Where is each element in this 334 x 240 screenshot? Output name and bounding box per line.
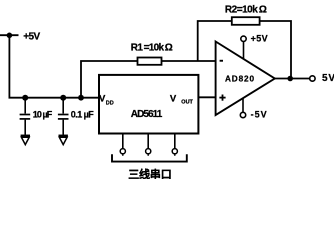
wire VOUT to non-inverting input <box>198 96 215 98</box>
supply -5V stub and terminal <box>240 98 245 118</box>
svg-text:+5V: +5V <box>251 34 268 44</box>
ground (under C2) <box>59 136 68 145</box>
capacitor C2 0.1uF <box>58 98 69 135</box>
label minus input <box>220 60 223 62</box>
svg-text:0.1 µF: 0.1 µF <box>71 110 95 120</box>
wire horizontal supply bus <box>9 97 100 99</box>
svg-text:10 µF: 10 µF <box>33 110 53 120</box>
svg-text:R1 =10k Ω: R1 =10k Ω <box>131 42 173 53</box>
svg-text:5V: 5V <box>322 73 334 84</box>
terminal output circle <box>310 76 315 81</box>
wire +5V rail stub <box>0 34 19 36</box>
IC U1 AD5611 box <box>99 75 198 134</box>
svg-text:R2=10k Ω: R2=10k Ω <box>225 4 267 15</box>
wire riser from bus to R1 <box>81 61 137 98</box>
svg-text:AD5611: AD5611 <box>131 109 163 120</box>
label plus input <box>219 95 225 101</box>
svg-text:V: V <box>170 93 177 104</box>
ground (under C1) <box>21 136 30 145</box>
pin 2 stub and terminal <box>146 134 151 156</box>
node junction R1 riser <box>78 95 84 101</box>
node junction C2 <box>60 95 66 101</box>
node junction C1 <box>22 95 28 101</box>
wire vertical from +5V to bus <box>8 35 10 98</box>
wire feedback loop <box>198 21 232 61</box>
svg-text:+5V: +5V <box>23 31 40 42</box>
wire output <box>275 78 310 80</box>
pin 3 stub and terminal <box>172 134 177 156</box>
bracket serial port <box>112 154 187 161</box>
resistor R2 <box>232 17 260 25</box>
wire from R1 to inverting input <box>162 60 216 62</box>
supply +5V stub and terminal <box>241 36 246 59</box>
svg-text:三线串口: 三线串口 <box>128 167 172 179</box>
node +5V junction <box>7 33 13 39</box>
svg-text:-5V: -5V <box>251 110 267 120</box>
svg-text:DD: DD <box>106 100 114 106</box>
svg-text:AD820: AD820 <box>225 74 254 83</box>
capacitor C1 10uF <box>20 98 31 135</box>
wire feedback right side <box>260 21 291 79</box>
resistor R1 <box>138 58 162 65</box>
node output junction <box>287 76 293 82</box>
svg-text:OUT: OUT <box>181 100 193 106</box>
pin 1 stub and terminal <box>120 134 125 156</box>
op-amp U2 AD820 <box>216 42 275 116</box>
